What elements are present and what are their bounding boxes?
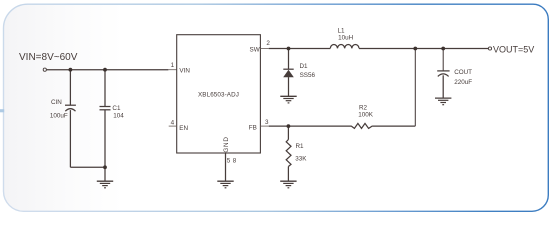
capacitor C1 xyxy=(100,106,111,108)
svg-text:R1: R1 xyxy=(296,143,305,150)
svg-text:FB: FB xyxy=(249,125,257,132)
wire CIN bottom xyxy=(69,110,71,167)
wire bottom joining xyxy=(70,166,105,168)
wire FB net xyxy=(269,125,351,127)
wire R1 bottom xyxy=(287,167,289,182)
svg-text:8: 8 xyxy=(233,157,237,164)
svg-text:VOUT=5V: VOUT=5V xyxy=(493,45,534,55)
ground (R1) xyxy=(280,181,296,188)
wire C1 top xyxy=(104,70,106,107)
wire COUT top xyxy=(442,49,444,71)
capacitor COUT xyxy=(437,70,449,72)
svg-text:100K: 100K xyxy=(358,112,374,119)
svg-text:VIN: VIN xyxy=(179,67,190,74)
node CIN tap xyxy=(69,68,73,72)
wire D1 top xyxy=(288,49,290,70)
diode D1 cathode bar xyxy=(283,68,293,70)
svg-text:10uH: 10uH xyxy=(338,35,354,42)
svg-text:COUT: COUT xyxy=(454,69,472,76)
inductor L1 xyxy=(330,45,359,49)
ground (D1) xyxy=(280,96,296,103)
node bottom join xyxy=(103,165,107,169)
wire VIN input to pin1 xyxy=(47,69,169,71)
wire CIN top xyxy=(69,70,71,105)
svg-text:EN: EN xyxy=(179,125,188,132)
left border tick xyxy=(0,109,4,112)
ground (COUT) xyxy=(435,98,451,105)
svg-text:CIN: CIN xyxy=(51,99,62,106)
ground (C1/CIN) xyxy=(97,181,113,188)
svg-text:100uF: 100uF xyxy=(50,113,68,120)
node D1 tap xyxy=(287,47,291,51)
pin 2 SW stub xyxy=(260,48,268,50)
svg-text:SS56: SS56 xyxy=(300,72,316,79)
node R1 tap xyxy=(287,124,291,128)
wire GND pin xyxy=(225,153,227,181)
svg-text:4: 4 xyxy=(171,119,175,126)
svg-text:SW: SW xyxy=(250,46,260,53)
diode D1 triangle xyxy=(283,70,294,78)
svg-text:D1: D1 xyxy=(300,63,309,70)
node C1 tap xyxy=(103,68,107,72)
svg-text:R2: R2 xyxy=(359,105,368,112)
svg-text:104: 104 xyxy=(113,113,124,120)
input terminal xyxy=(43,68,46,71)
resistor R1 xyxy=(286,140,291,167)
wire D1 bottom xyxy=(288,77,290,96)
svg-text:220uF: 220uF xyxy=(454,79,472,86)
IC U1 XBL6503-ADJ body xyxy=(177,35,261,153)
resistor R2 xyxy=(351,123,373,128)
node FB divider top xyxy=(413,47,417,51)
wire COUT bottom xyxy=(442,75,444,98)
svg-text:3: 3 xyxy=(265,119,269,126)
pin 3 FB stub xyxy=(260,125,268,127)
wire L1 to VOUT xyxy=(359,48,488,50)
node COUT tap xyxy=(441,47,445,51)
svg-text:2: 2 xyxy=(266,40,270,47)
wire R1 top xyxy=(287,126,289,139)
wire R2 to vertical xyxy=(373,125,416,127)
svg-text:33K: 33K xyxy=(295,155,307,162)
wire FB riser xyxy=(414,49,416,127)
svg-text:5: 5 xyxy=(227,157,231,164)
pin 1 stub xyxy=(168,69,176,71)
terminal VOUT xyxy=(488,47,491,50)
wire C1 bottom xyxy=(104,110,106,181)
ground (IC GND pin) xyxy=(217,181,233,188)
svg-text:VIN=8V~60V: VIN=8V~60V xyxy=(19,52,78,63)
svg-text:GND: GND xyxy=(223,136,230,152)
capacitor CIN xyxy=(65,104,76,106)
svg-text:XBL6503-ADJ: XBL6503-ADJ xyxy=(198,92,239,99)
svg-text:C1: C1 xyxy=(112,105,121,112)
wire SW net xyxy=(269,48,331,50)
pin 4 EN stub xyxy=(169,125,177,127)
svg-text:1: 1 xyxy=(171,62,175,69)
